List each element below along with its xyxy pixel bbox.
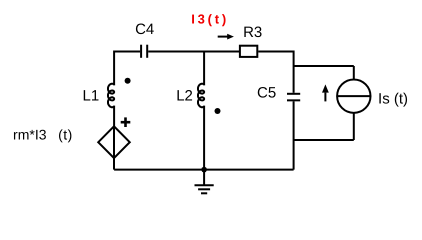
svg-text:C5: C5	[257, 84, 276, 101]
svg-text:I3(t): I3(t)	[191, 11, 229, 26]
svg-text:C4: C4	[135, 21, 154, 38]
svg-text:R3: R3	[243, 24, 262, 41]
svg-text:L1: L1	[83, 88, 100, 105]
svg-text:Is (t): Is (t)	[378, 90, 408, 107]
svg-text:rm*I3: rm*I3	[13, 126, 47, 142]
svg-text:(t): (t)	[58, 126, 73, 142]
svg-text:L2: L2	[176, 87, 193, 104]
